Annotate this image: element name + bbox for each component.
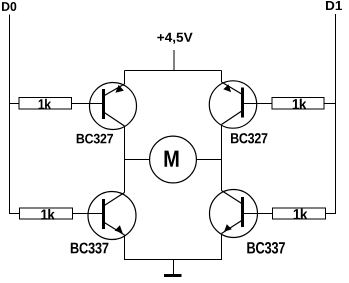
label Q2 BC327 bbox=[231, 133, 267, 143]
wire ground stem bbox=[173, 260, 175, 275]
wire right branch Q2 collector to Q4 collector bbox=[221, 125, 223, 191]
wire top supply rail bbox=[125, 70, 222, 72]
transistor Q4 BC337 bottom-right bbox=[210, 190, 258, 238]
value label 1k bbox=[293, 99, 307, 110]
motor M bbox=[150, 136, 197, 183]
wire rail to Q1 emitter bbox=[124, 71, 126, 85]
ground bbox=[164, 274, 182, 277]
transistor Q1 BC327 top-left bbox=[90, 83, 137, 130]
wire D0 to R1 bbox=[10, 103, 20, 105]
wire R2 to D1 bbox=[324, 103, 336, 105]
wire D0 vertical with corner to R3 bbox=[10, 15, 20, 214]
wire motor right bbox=[197, 159, 222, 161]
wire +4,5V stem bbox=[173, 50, 175, 71]
transistor Q2 BC327 top-right bbox=[209, 81, 256, 128]
wire left branch Q1 collector to Q3 collector bbox=[124, 126, 126, 193]
node D0 label bbox=[2, 2, 16, 11]
wire rail to Q2 emitter bbox=[221, 71, 223, 83]
label Q1 BC327 bbox=[77, 134, 113, 144]
wire motor left bbox=[125, 159, 151, 161]
value label 1k bbox=[294, 209, 308, 220]
label Q4 BC337 bbox=[247, 242, 285, 254]
resistor R1 bbox=[19, 98, 72, 110]
wire Q2 base to R2 bbox=[243, 103, 273, 105]
node D1 label bbox=[326, 1, 342, 10]
value label 1k bbox=[39, 99, 52, 110]
wire bottom rail bbox=[124, 259, 222, 261]
resistor R4 bbox=[273, 208, 326, 219]
net +4,5V label bbox=[157, 33, 192, 44]
wire Q3 emitter down bbox=[124, 235, 126, 260]
wire Q4 emitter down bbox=[221, 234, 223, 260]
label Q3 BC337 bbox=[71, 243, 109, 254]
value label 1k bbox=[41, 209, 55, 220]
wire D1 vertical with corner to R4 bbox=[326, 14, 336, 214]
resistor R2 bbox=[272, 98, 324, 110]
transistor Q3 BC337 bottom-left bbox=[88, 192, 136, 240]
wire Q4 base to R4 bbox=[243, 213, 273, 215]
wire R1 to Q1 base bbox=[72, 103, 104, 105]
wire R3 to Q3 base bbox=[73, 213, 104, 215]
resistor R3 bbox=[20, 208, 73, 220]
